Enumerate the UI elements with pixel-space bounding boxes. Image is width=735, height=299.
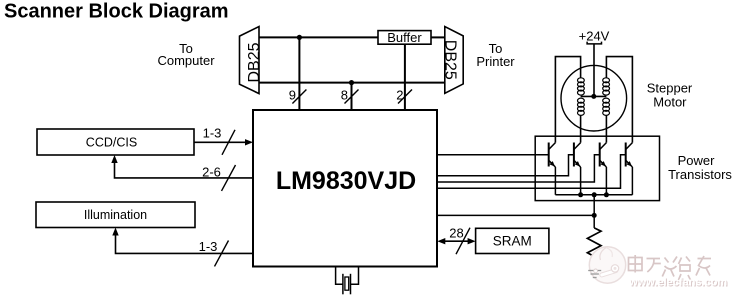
svg-text:DB25: DB25 xyxy=(442,40,459,80)
node rail junctions xyxy=(578,192,583,197)
coil L2 xyxy=(603,78,610,116)
svg-text:Motor: Motor xyxy=(653,94,687,109)
label To Printer xyxy=(476,41,515,69)
watermark chinese text xyxy=(629,255,712,280)
+24V feed inside circle xyxy=(593,65,595,96)
wire top bus right segment xyxy=(431,36,445,38)
svg-text:LM9830VJD: LM9830VJD xyxy=(276,167,416,195)
resistor R1 xyxy=(587,228,601,263)
node sense junction xyxy=(592,213,597,218)
transistor Q3 xyxy=(600,143,607,195)
label Power Transistors xyxy=(668,153,732,182)
wire CCD to U1 (1-3) xyxy=(194,141,246,143)
buffer U2 xyxy=(378,30,431,45)
center tap wire xyxy=(581,95,607,97)
transistor Q1 xyxy=(549,143,556,195)
wire bottom bus xyxy=(259,82,445,84)
wire bus 9 vertical xyxy=(298,37,300,110)
crystal X1 xyxy=(336,267,359,295)
transistor Q4 xyxy=(626,143,633,195)
wire U1 to Illumination (1-3) xyxy=(116,235,254,254)
winding left bracket xyxy=(555,57,580,143)
svg-text:1-3: 1-3 xyxy=(199,239,218,254)
motor M1 stepper xyxy=(555,57,632,143)
svg-text:2: 2 xyxy=(396,88,403,103)
winding right bracket xyxy=(606,57,632,143)
svg-text:DB25: DB25 xyxy=(246,42,263,82)
power transistors group box xyxy=(535,136,659,200)
svg-text:28: 28 xyxy=(449,226,463,241)
wire base Q1 xyxy=(437,154,548,156)
svg-text:CCD/CIS: CCD/CIS xyxy=(86,136,137,150)
wire bus 2 vertical xyxy=(404,44,406,110)
svg-text:www.elecfans.com: www.elecfans.com xyxy=(628,277,727,289)
IC U1 LM9830VJD xyxy=(253,110,437,267)
svg-text:Power: Power xyxy=(678,153,716,168)
connector J1 DB25 to computer xyxy=(240,27,263,94)
power +24V xyxy=(579,29,610,97)
svg-text:Transistors: Transistors xyxy=(668,167,732,182)
wire U1 sense line xyxy=(437,214,594,216)
svg-text:1-3: 1-3 xyxy=(203,125,222,140)
coil L1 xyxy=(578,78,585,116)
node junction on top bus xyxy=(297,35,302,40)
svg-text:9: 9 xyxy=(289,88,296,103)
watermark url xyxy=(628,277,728,290)
bus slash 9 xyxy=(292,90,306,104)
connector J2 DB25 to printer xyxy=(442,27,464,94)
block CCD/CIS xyxy=(37,129,194,155)
wire base Q4 xyxy=(437,155,625,188)
wire base Q2 xyxy=(437,155,574,176)
svg-text:Printer: Printer xyxy=(476,54,515,69)
memory SRAM xyxy=(476,228,549,253)
watermark logo xyxy=(589,247,625,283)
svg-text:8: 8 xyxy=(341,88,348,103)
svg-text:2-6: 2-6 xyxy=(202,164,221,179)
watermark swoosh xyxy=(594,265,619,278)
label Stepper Motor xyxy=(647,81,693,110)
wire bus 8 vertical xyxy=(351,83,353,110)
svg-text:+24V: +24V xyxy=(579,29,610,44)
bus U1-SRAM 28 xyxy=(444,240,469,242)
node junction on bottom bus xyxy=(349,80,354,85)
ground xyxy=(588,271,601,278)
label To Computer xyxy=(157,41,215,68)
bus slash 2 xyxy=(398,90,412,104)
wire U1 to CCD (2-6) xyxy=(115,162,254,178)
svg-text:SRAM: SRAM xyxy=(493,234,532,249)
transistor Q2 xyxy=(574,143,581,195)
svg-text:Scanner Block Diagram: Scanner Block Diagram xyxy=(4,1,229,23)
svg-text:Illumination: Illumination xyxy=(84,208,147,222)
wire base Q3 xyxy=(437,155,599,182)
svg-text:Buffer: Buffer xyxy=(387,30,422,45)
node center tap xyxy=(591,94,596,99)
wire top bus left segment xyxy=(259,36,378,38)
wire resistor to ground xyxy=(593,263,595,270)
wire rail to resistor xyxy=(593,195,595,228)
svg-text:Computer: Computer xyxy=(157,53,215,68)
bus slash 8 xyxy=(345,90,359,104)
wire coil bottoms to transistors xyxy=(580,115,582,142)
wire emitter rail xyxy=(555,194,632,196)
svg-text:Stepper: Stepper xyxy=(647,81,693,96)
block Illumination xyxy=(36,202,195,228)
